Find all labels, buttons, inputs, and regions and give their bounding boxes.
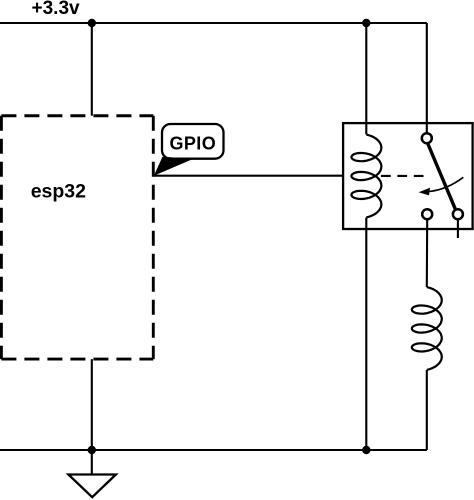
wire top rail +3.3v xyxy=(0,22,427,24)
relay actuation dashed link xyxy=(381,175,424,177)
wire relay coil bottom to ground rail xyxy=(365,218,367,451)
node junction bottom-right xyxy=(362,446,370,454)
wire vertical from top rail to esp32 xyxy=(91,23,93,116)
wire load coil bottom to ground rail xyxy=(426,370,428,450)
GPIO callout pointer xyxy=(154,157,194,176)
wire from top rail down to relay switch common pin xyxy=(426,23,428,132)
relay blade motion arrow xyxy=(429,177,463,191)
relay switch blade xyxy=(428,144,455,209)
node junction top-right xyxy=(362,19,370,27)
relay switch NO contact pin xyxy=(422,209,432,219)
wire esp32 bottom to ground xyxy=(91,359,93,474)
wire vertical from top rail to relay coil pin xyxy=(365,23,367,135)
GPIO callout bubble xyxy=(162,124,224,159)
relay switch common contact pin xyxy=(422,133,432,143)
wire NC stub xyxy=(457,219,459,238)
relay U1 box xyxy=(343,123,473,229)
wire relay NO pin down to load coil xyxy=(426,219,429,287)
relay switch NC contact pin xyxy=(453,209,463,219)
ground symbol xyxy=(68,475,116,498)
node junction top-left xyxy=(88,19,96,27)
svg-text:+3.3v: +3.3v xyxy=(32,0,81,19)
wire bottom ground rail xyxy=(0,449,427,451)
node junction bottom-left xyxy=(88,446,96,454)
wire GPIO to relay xyxy=(154,175,343,177)
esp32 dashed box xyxy=(1,116,153,359)
load inductor L2 xyxy=(412,287,442,370)
svg-text:esp32: esp32 xyxy=(31,180,86,202)
svg-text:GPIO: GPIO xyxy=(170,133,217,153)
relay coil L1 xyxy=(351,135,381,218)
